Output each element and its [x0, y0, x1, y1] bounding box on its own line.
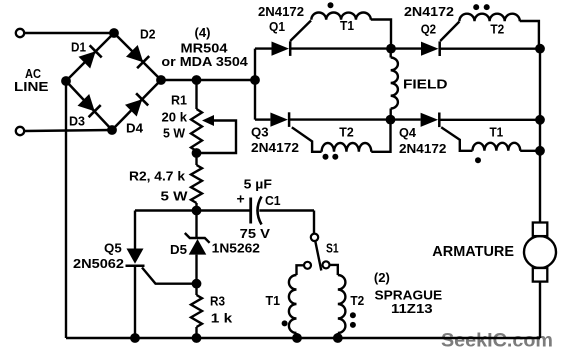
svg-text:C1: C1 [265, 193, 281, 208]
svg-text:D1: D1 [71, 40, 86, 55]
svg-text:1 k: 1 k [211, 311, 233, 326]
svg-text:Q1: Q1 [269, 19, 285, 34]
svg-text:T2: T2 [339, 125, 353, 140]
svg-text:75 V: 75 V [240, 226, 271, 241]
svg-text:or MDA 3504: or MDA 3504 [161, 54, 248, 69]
svg-text:5 µF: 5 µF [244, 176, 272, 191]
svg-text:Q3: Q3 [251, 125, 269, 140]
svg-text:T1: T1 [266, 293, 281, 308]
svg-text:2N4172: 2N4172 [251, 140, 299, 155]
svg-text:T1: T1 [340, 18, 354, 33]
svg-text:S1: S1 [326, 241, 339, 256]
svg-text:5 W: 5 W [161, 189, 189, 204]
svg-text:FIELD: FIELD [403, 76, 448, 91]
svg-text:R2, 4.7 k: R2, 4.7 k [129, 168, 186, 183]
svg-text:Q4: Q4 [399, 125, 417, 140]
svg-text:2N4172: 2N4172 [258, 4, 304, 19]
svg-text:R1: R1 [171, 93, 187, 108]
svg-text:T1: T1 [490, 125, 504, 140]
svg-text:SeekIC.com: SeekIC.com [441, 331, 553, 352]
svg-text:1N5262: 1N5262 [212, 241, 260, 256]
svg-text:T2: T2 [490, 22, 504, 37]
svg-text:R3: R3 [210, 294, 225, 309]
svg-text:(2): (2) [374, 270, 390, 285]
svg-text:11Z13: 11Z13 [391, 301, 433, 316]
svg-text:D5: D5 [170, 242, 187, 257]
svg-text:+: + [237, 191, 245, 207]
svg-text:ARMATURE: ARMATURE [432, 244, 514, 260]
svg-text:2N5062: 2N5062 [73, 256, 124, 271]
svg-text:(4): (4) [195, 25, 211, 40]
svg-text:Q2: Q2 [421, 22, 436, 37]
svg-text:20 k: 20 k [162, 110, 188, 125]
svg-text:2N4172: 2N4172 [404, 4, 454, 19]
svg-text:2N4172: 2N4172 [399, 141, 446, 156]
svg-text:5 W: 5 W [163, 126, 186, 141]
svg-text:Q5: Q5 [104, 241, 122, 256]
svg-text:D3: D3 [69, 114, 85, 129]
svg-text:D4: D4 [126, 121, 144, 136]
svg-text:LINE: LINE [14, 79, 49, 94]
svg-text:D2: D2 [140, 27, 156, 42]
svg-text:T2: T2 [350, 293, 364, 308]
